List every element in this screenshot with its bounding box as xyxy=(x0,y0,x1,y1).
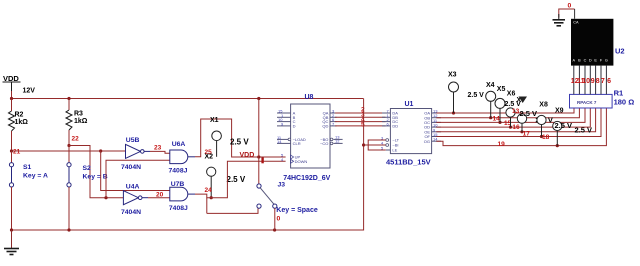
svg-text:~CO: ~CO xyxy=(320,141,328,146)
svg-text:X9: X9 xyxy=(555,107,564,114)
wire VDD top rail xyxy=(11,91,364,99)
svg-text:A: A xyxy=(573,58,576,62)
svg-text:5: 5 xyxy=(361,122,365,129)
svg-text:7408J: 7408J xyxy=(169,205,188,212)
svg-text:8: 8 xyxy=(596,78,600,85)
junction dots probe taps xyxy=(452,111,559,147)
probe X9 xyxy=(556,131,558,146)
svg-text:J3: J3 xyxy=(278,182,286,189)
svg-text:17: 17 xyxy=(523,130,531,137)
inverter U5B 7404N xyxy=(126,144,151,158)
wire riser to U6A bottom input xyxy=(106,160,170,197)
switch J3 SPDT xyxy=(257,184,277,208)
svg-text:20: 20 xyxy=(156,192,164,199)
svg-text:S2: S2 xyxy=(83,165,92,172)
probe X4 xyxy=(490,101,492,118)
wire segment rows OA-OG to resistor pack risers xyxy=(436,108,606,146)
seven-segment display U2 xyxy=(571,19,613,66)
svg-text:14: 14 xyxy=(277,139,282,144)
VDD power symbol top-left xyxy=(3,82,21,91)
svg-text:4511BD_15V: 4511BD_15V xyxy=(386,158,431,167)
svg-text:24: 24 xyxy=(205,187,213,194)
svg-text:14: 14 xyxy=(493,116,501,123)
svg-text:21: 21 xyxy=(13,149,21,156)
AND gate U7B 7408J xyxy=(170,187,195,201)
svg-text:R3: R3 xyxy=(74,111,83,118)
svg-text:B: B xyxy=(578,58,581,62)
svg-text:16: 16 xyxy=(512,124,520,131)
probe X1 xyxy=(216,141,218,157)
svg-text:7: 7 xyxy=(601,78,605,85)
svg-text:Key = B: Key = B xyxy=(83,173,108,180)
svg-text:19: 19 xyxy=(498,141,506,148)
svg-text:R1: R1 xyxy=(614,89,624,98)
svg-text:10: 10 xyxy=(582,78,590,85)
U8 BO CO stubs with bubbles xyxy=(333,139,342,143)
svg-text:X4: X4 xyxy=(486,82,495,89)
wire net 25 U6A out loop over X1 to U8 UP xyxy=(195,119,286,157)
U1 lower-left bubbles xyxy=(386,139,389,142)
svg-text:X5: X5 xyxy=(497,86,506,93)
svg-text:7404N: 7404N xyxy=(121,164,141,171)
probe X6 xyxy=(510,117,512,127)
svg-text:23: 23 xyxy=(154,145,162,152)
net numbers 2 3 4 5 xyxy=(361,107,365,129)
U8 clock triangles xyxy=(291,155,294,159)
IC U1 4511BD_15V xyxy=(390,109,431,154)
wire node21 branch down to U7B top input xyxy=(101,151,170,191)
svg-text:12: 12 xyxy=(335,139,340,144)
U8 pins UP DOWN stubs + numbers 5 4 xyxy=(281,153,284,162)
wire net 23 U5B out to U6A top input xyxy=(150,151,170,153)
U8 left pin numbers 15 1 10 9 xyxy=(278,109,284,127)
wire node21 row to U5B input xyxy=(12,150,126,152)
U8 right stubs QA-QD + numbers 3 2 6 7 xyxy=(330,113,337,126)
svg-text:74HC192D_6V: 74HC192D_6V xyxy=(283,175,330,182)
svg-text:U5B: U5B xyxy=(126,137,140,144)
svg-text:DD: DD xyxy=(392,124,398,129)
resistor R3 xyxy=(68,99,70,146)
svg-text:X8: X8 xyxy=(539,102,548,109)
svg-text:X3: X3 xyxy=(448,72,457,79)
svg-text:6: 6 xyxy=(607,78,611,85)
svg-text:2.5 V: 2.5 V xyxy=(227,175,246,184)
U1 right stubs OA-OG + numbers xyxy=(432,113,441,141)
svg-text:U4A: U4A xyxy=(126,184,140,191)
resistor pack R1 xyxy=(570,94,613,108)
wire net 20 U4A out to U7B bottom input xyxy=(148,197,170,199)
ground symbol top right xyxy=(553,20,566,26)
U1 inner pin names xyxy=(392,111,399,153)
svg-text:18: 18 xyxy=(542,134,550,141)
node junction dots on rail xyxy=(10,97,261,100)
svg-text:QD: QD xyxy=(322,124,328,129)
switch S1 xyxy=(9,151,13,230)
IC U8 74HC192D_6V xyxy=(291,104,330,168)
wire J3 left throw to net 24 xyxy=(207,208,258,213)
probe X8 xyxy=(541,125,543,137)
svg-text:7404N: 7404N xyxy=(121,209,141,216)
svg-text:0: 0 xyxy=(568,3,572,10)
svg-text:2.5 V: 2.5 V xyxy=(230,138,249,147)
inverter U4A 7404N xyxy=(123,191,148,205)
svg-text:VDD: VDD xyxy=(3,74,19,83)
svg-text:Key = Space: Key = Space xyxy=(276,207,318,214)
svg-text:13: 13 xyxy=(512,108,520,115)
svg-text:RPACK 7: RPACK 7 xyxy=(577,100,597,105)
wire node22 to corner x90 xyxy=(69,146,106,198)
svg-text:9: 9 xyxy=(591,78,595,85)
svg-text:S1: S1 xyxy=(23,164,32,171)
wire net 24 U7B out to U8 DOWN xyxy=(195,161,286,197)
svg-text:U7B: U7B xyxy=(171,181,185,188)
AND gate U6A 7408J xyxy=(170,150,195,164)
U8 pins LOAD CLR stubs xyxy=(277,139,291,143)
svg-text:U1: U1 xyxy=(405,101,414,108)
svg-text:CA: CA xyxy=(573,21,579,25)
svg-text:U6A: U6A xyxy=(172,141,186,148)
svg-text:12V: 12V xyxy=(23,88,36,95)
svg-text:X2: X2 xyxy=(205,154,214,161)
svg-text:2.5 V: 2.5 V xyxy=(520,109,538,118)
svg-text:D: D xyxy=(589,58,592,62)
probe X7 xyxy=(521,123,523,132)
node dot on VDD drop xyxy=(362,143,365,146)
ground symbol bottom-left xyxy=(4,230,19,255)
svg-text:OG: OG xyxy=(424,139,430,144)
svg-text:X1: X1 xyxy=(210,117,219,124)
probe X3 xyxy=(453,92,455,113)
U8 left pin stubs A B C D xyxy=(277,113,291,126)
svg-text:LE: LE xyxy=(392,148,397,153)
wires nets 2 3 4 5 U8 QA-QD to U1 DA-DD xyxy=(335,113,385,126)
svg-text:22: 22 xyxy=(72,136,80,143)
wire bundle to U1 LT BI LE xyxy=(364,140,386,150)
svg-text:7408J: 7408J xyxy=(169,168,188,175)
U2 pin numbers 12 11 10 9 8 7 6 xyxy=(571,78,611,85)
switch S2 xyxy=(67,146,71,231)
svg-text:0: 0 xyxy=(277,216,281,223)
svg-text:Key = A: Key = A xyxy=(23,173,48,180)
svg-text:2.5 V: 2.5 V xyxy=(575,125,593,134)
svg-text:2.5 V: 2.5 V xyxy=(555,121,573,130)
svg-text:CLR: CLR xyxy=(293,141,301,146)
wire rail to J3 top xyxy=(258,99,260,184)
svg-text:1kΩ: 1kΩ xyxy=(15,119,29,126)
U1 left stubs DA-DD xyxy=(382,113,390,126)
svg-text:R2: R2 xyxy=(15,112,24,119)
svg-text:G: G xyxy=(605,58,608,62)
display U2 pins to R1 xyxy=(574,66,607,95)
svg-text:2.5 V: 2.5 V xyxy=(468,92,485,99)
svg-text:DOWN: DOWN xyxy=(295,159,308,164)
svg-text:180 Ω: 180 Ω xyxy=(614,98,635,107)
svg-text:X6: X6 xyxy=(507,91,516,98)
svg-text:1kΩ: 1kΩ xyxy=(74,118,88,125)
wire U2 top to ground xyxy=(559,9,575,18)
svg-text:VDD: VDD xyxy=(240,152,255,159)
node 21 xyxy=(10,149,13,152)
probe X5 xyxy=(499,108,501,122)
svg-text:C: C xyxy=(584,58,587,62)
svg-text:U8: U8 xyxy=(305,94,314,101)
resistor R2 xyxy=(11,99,13,152)
ground return row bottom xyxy=(12,145,364,230)
svg-text:U2: U2 xyxy=(615,47,625,56)
wire VDD drop from rail to bundle xyxy=(363,99,365,146)
wire U4A input row xyxy=(106,197,123,199)
svg-text:D: D xyxy=(293,124,296,129)
U8 inner pin names xyxy=(293,111,308,164)
